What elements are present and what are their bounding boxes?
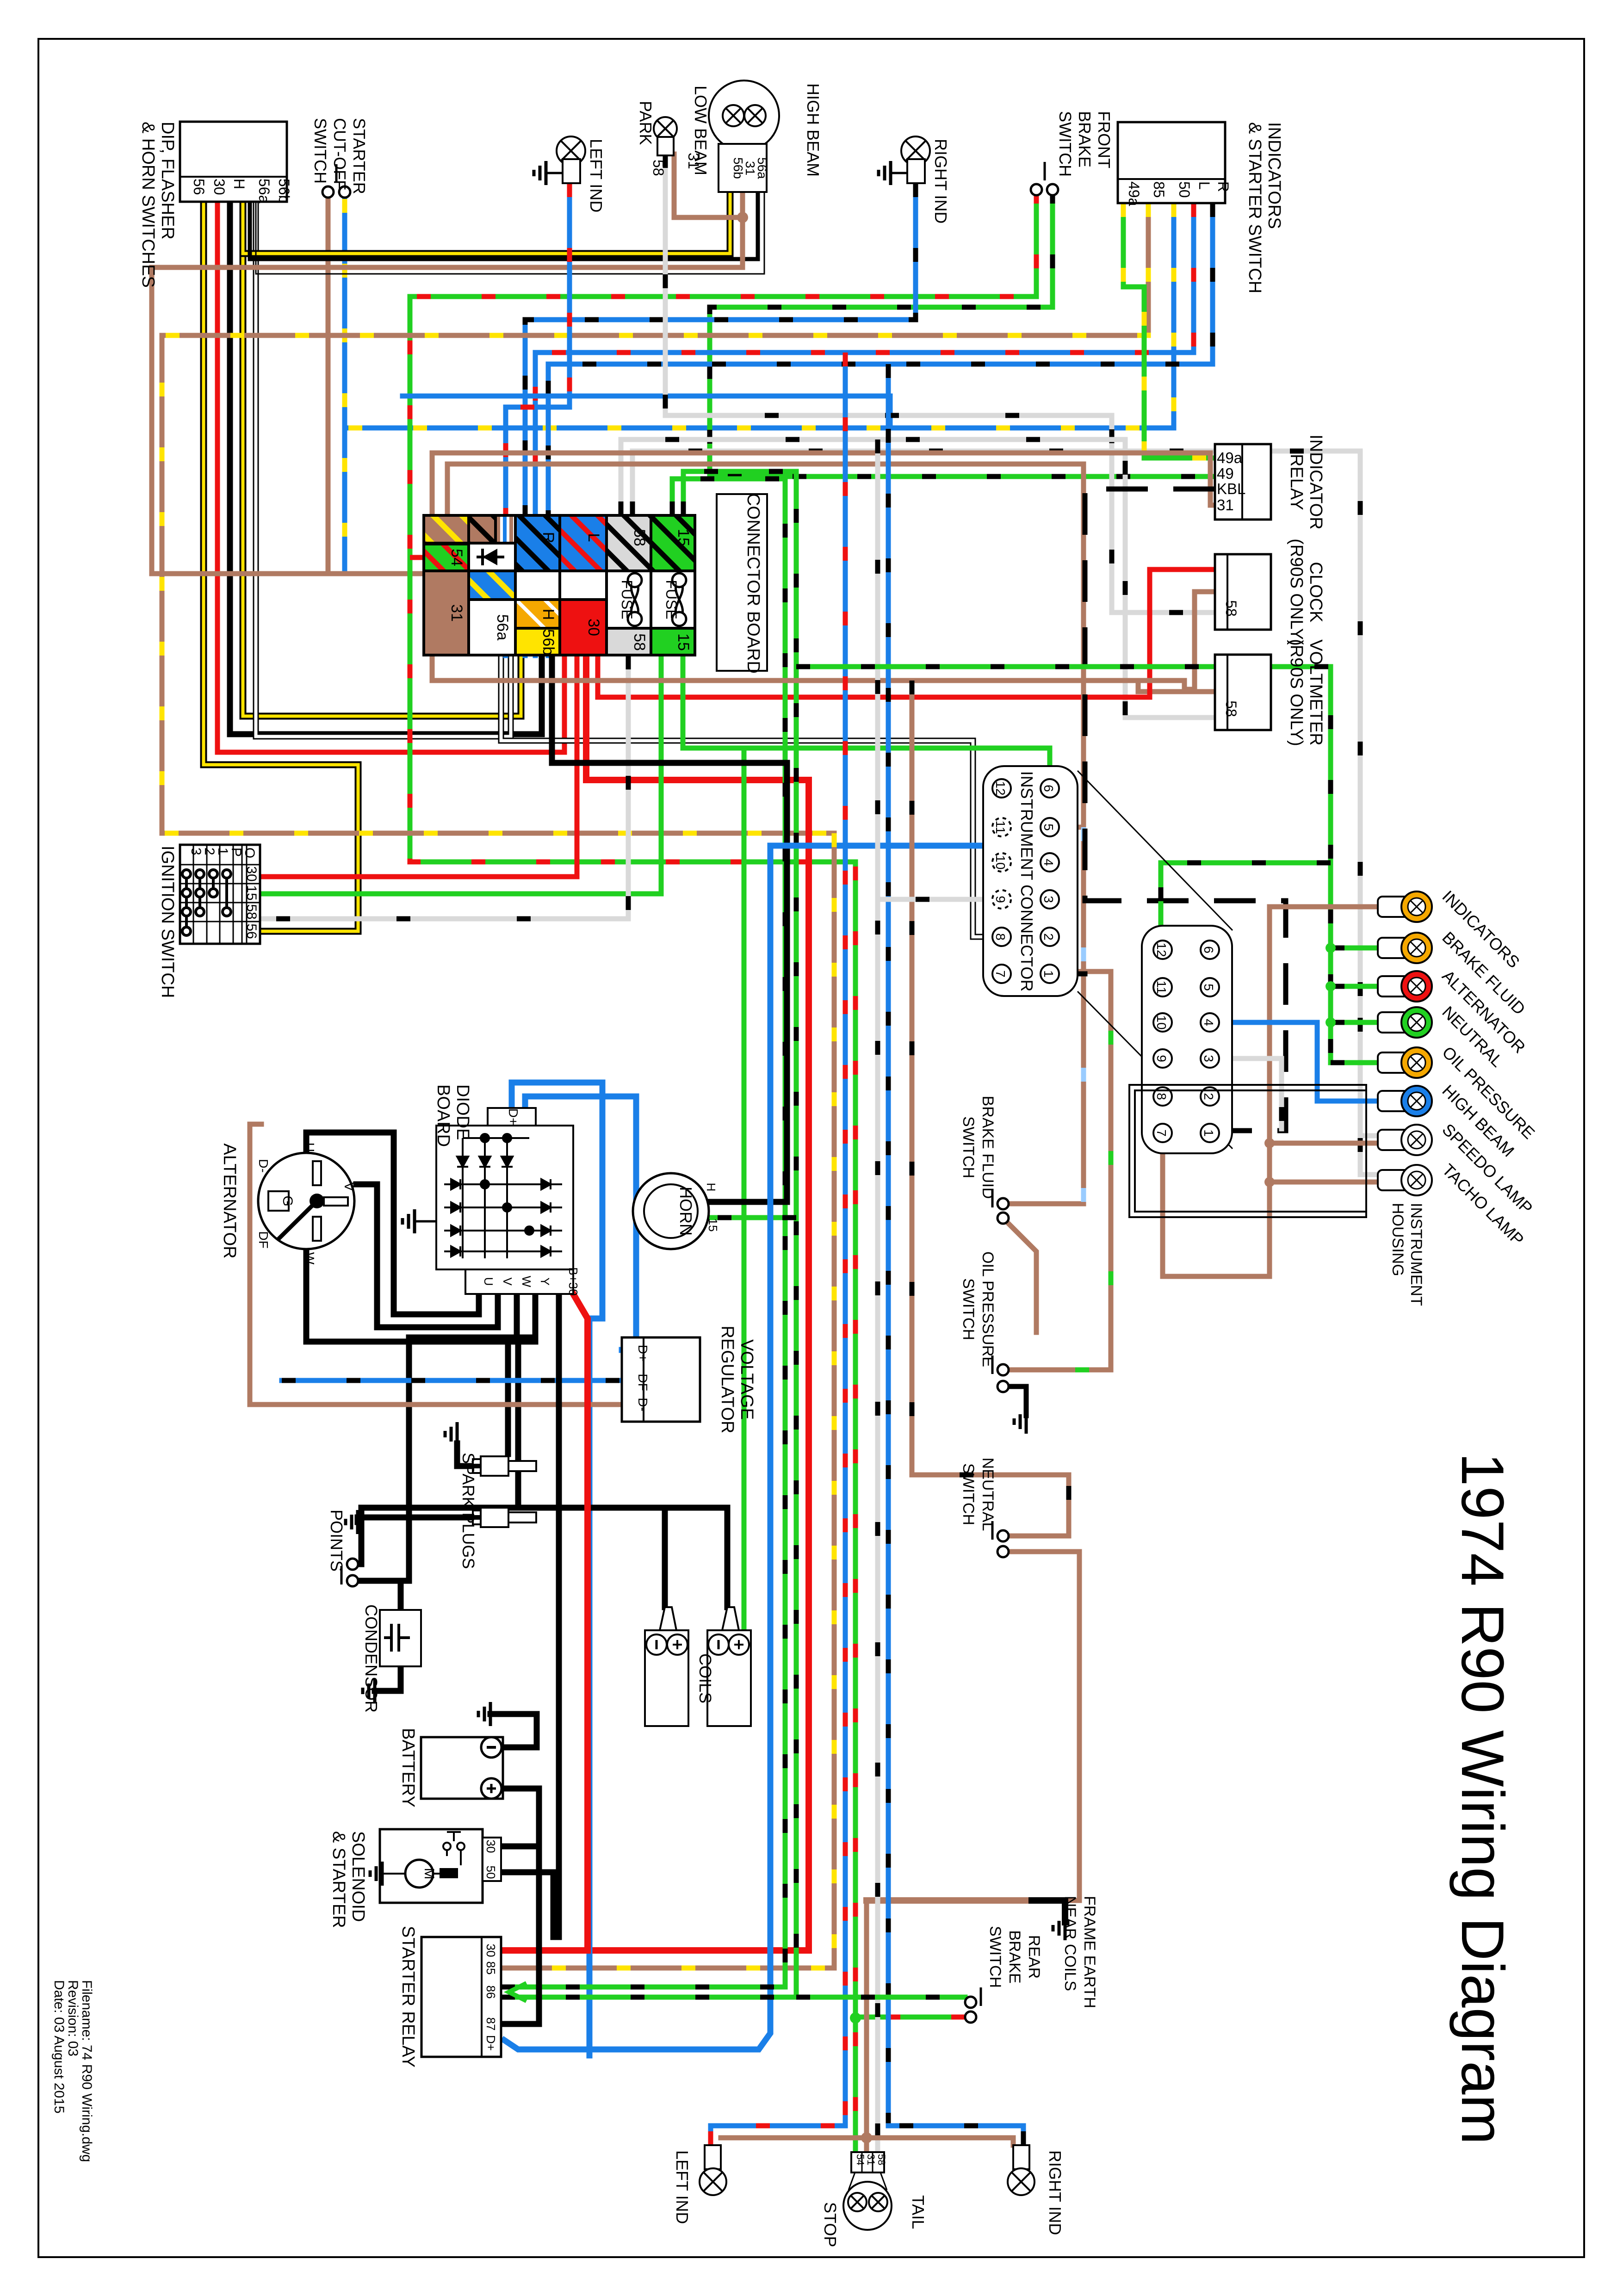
svg-text:D+: D+ [636, 1345, 650, 1362]
wire blue/red L bus [535, 203, 1194, 656]
wire 49a green/yellow [1123, 203, 1215, 458]
svg-text:V: V [501, 1277, 514, 1286]
svg-text:TAIL: TAIL [909, 2195, 928, 2229]
junction 31 tail [861, 2132, 872, 2143]
svg-text:& HORN SWITCHES: & HORN SWITCHES [138, 122, 158, 288]
svg-text:DF: DF [256, 1231, 271, 1248]
svg-text:D-: D- [256, 1159, 271, 1173]
junction dots housing greens [1326, 943, 1336, 1027]
ground solenoid [370, 1862, 382, 1886]
wire condensor gnd [375, 1666, 401, 1691]
wire H dip->board black [230, 202, 542, 734]
svg-text:15: 15 [706, 1219, 720, 1232]
diode board [436, 1126, 573, 1269]
svg-text:87: 87 [484, 2018, 498, 2031]
svg-text:U: U [482, 1277, 496, 1286]
svg-text:3: 3 [188, 848, 204, 855]
wire coil 1 feed [662, 1508, 668, 1607]
coils [645, 1630, 688, 1726]
junction 31 headlamp/park [737, 212, 748, 223]
lamp park [654, 117, 677, 140]
svg-text:54: 54 [855, 2154, 866, 2165]
svg-text:HORN: HORN [676, 1187, 695, 1236]
svg-text:8: 8 [1154, 1093, 1169, 1100]
wire alternator D- brown [250, 1221, 622, 1405]
svg-text:SWITCH: SWITCH [311, 118, 330, 184]
svg-text:50: 50 [484, 1866, 498, 1879]
svg-text:RIGHT IND: RIGHT IND [931, 139, 950, 223]
svg-text:VOLTAGE: VOLTAGE [737, 1339, 756, 1420]
leader lines [1078, 771, 1233, 930]
svg-text:1974 R90 Wiring Diagram: 1974 R90 Wiring Diagram [1449, 1453, 1517, 2145]
wire grey 58 board->voltmeter [621, 439, 1215, 718]
svg-text:DIODE: DIODE [453, 1084, 472, 1140]
points [347, 1559, 358, 1570]
svg-text:U: U [303, 1143, 317, 1152]
wire 56b dip->board white [256, 202, 511, 736]
svg-text:FUSE: FUSE [619, 580, 635, 619]
wire starter cut-off blue/yellow [345, 199, 469, 574]
connector board blocks [424, 515, 695, 655]
svg-text:O: O [242, 848, 257, 858]
wire 31 headlamp->left brown [152, 192, 743, 574]
wire KBL dashed black [1085, 489, 1286, 1131]
dip flasher & horn switches box [180, 122, 287, 202]
instrument housing connector [1142, 926, 1232, 1153]
wire indicators lamp brown2 [1270, 1141, 1380, 1146]
wire alternator D- up [250, 1124, 261, 1405]
svg-text:4: 4 [1202, 1019, 1216, 1026]
lamp high beam [744, 105, 766, 126]
svg-text:5: 5 [1041, 823, 1056, 831]
brake fluid switch [997, 1198, 1009, 1209]
wire housing pin4 blue high beam [1210, 1022, 1380, 1101]
ground right ind [879, 161, 891, 185]
svg-text:3: 3 [1041, 896, 1056, 903]
lamp stop bulb [848, 2193, 867, 2211]
wire points->coils black [361, 1508, 727, 1564]
wire blue/black R bus [548, 203, 1213, 656]
wire 56a dip->board yellow [243, 202, 521, 716]
svg-text:SOLENOID: SOLENOID [348, 1831, 368, 1922]
svg-text:12: 12 [1154, 942, 1169, 957]
indicators & starter switch box [1118, 122, 1225, 203]
svg-text:& STARTER SWITCH: & STARTER SWITCH [1245, 122, 1264, 293]
wire red fuse->clock [598, 569, 1215, 697]
svg-text:9: 9 [1154, 1055, 1169, 1062]
svg-text:LOW BEAM: LOW BEAM [691, 86, 710, 175]
svg-text:Y: Y [538, 1277, 552, 1285]
svg-text:58: 58 [631, 529, 648, 546]
lamp tail bulb [869, 2193, 887, 2211]
svg-text:11: 11 [1154, 980, 1169, 994]
svg-text:54: 54 [448, 549, 465, 566]
lamp SPEEDO LAMP [1378, 1130, 1410, 1150]
lamp left ind bottom [700, 2168, 726, 2195]
svg-text:15: 15 [675, 633, 692, 651]
svg-text:56b: 56b [539, 629, 557, 656]
wire grey trunk ->tail 58 [875, 439, 880, 2157]
wire 56a headlamp black [250, 192, 758, 259]
lamp NEUTRAL [1378, 1012, 1410, 1033]
wire 50 blue/yellow bus [345, 203, 1174, 428]
connector board label box [717, 494, 767, 671]
wire starter cut-off brown [328, 199, 424, 574]
svg-text:R: R [1215, 181, 1232, 192]
svg-text:58: 58 [1223, 600, 1239, 617]
wire green 15 ->instrument pin6 & coil [683, 656, 1050, 788]
svg-text:STOP: STOP [821, 2202, 840, 2247]
instrument connector [983, 766, 1078, 996]
wire diode Y -> points [353, 1294, 535, 1581]
svg-text:H: H [539, 609, 557, 620]
svg-text:SWITCH: SWITCH [960, 1278, 977, 1340]
wire spark plug 2 wire [358, 1517, 481, 1522]
rear brake switch [965, 1997, 976, 2008]
wire brown pin2->oil pressure [1009, 972, 1111, 1370]
wire oil lamp green [1331, 1060, 1380, 1065]
wire battery minus black [490, 1714, 537, 1747]
wire housing pin7 brown [1163, 907, 1380, 1276]
wire solenoid 50 black [491, 1872, 553, 1937]
svg-text:L: L [585, 533, 602, 542]
svg-text:30: 30 [244, 866, 259, 881]
wire 30 dip->fuse red [217, 202, 564, 752]
wire relay 86 green a [501, 1985, 785, 1990]
svg-text:W: W [303, 1252, 317, 1265]
svg-text:DIP, FLASHER: DIP, FLASHER [158, 122, 177, 240]
wire blue pin4->voltage reg D+ trunk [504, 846, 1045, 2049]
svg-text:RELAY: RELAY [1287, 454, 1306, 510]
ground spark2 [346, 1510, 358, 1534]
right ind bottom [1013, 2145, 1029, 2169]
svg-text:BRAKE: BRAKE [1006, 1930, 1023, 1983]
wire grey 58 park bus [665, 154, 1215, 613]
svg-text:D+: D+ [484, 2035, 498, 2051]
wire battery plus->solenoid [493, 1789, 539, 1846]
lamp HIGH BEAM [1378, 1091, 1410, 1111]
wire black pin1->KBL [1050, 972, 1085, 977]
svg-text:INSTRUMENT: INSTRUMENT [1407, 1203, 1425, 1306]
ignition contacts [182, 870, 231, 935]
svg-text:7: 7 [1154, 1129, 1169, 1137]
svg-text:ALTERNATOR: ALTERNATOR [220, 1143, 239, 1258]
svg-text:BRAKE: BRAKE [1075, 111, 1094, 167]
wire green/black front brake->relay49 [710, 190, 1215, 477]
spark plug 1 [473, 1456, 536, 1476]
svg-text:RIGHT IND: RIGHT IND [1046, 2150, 1065, 2235]
svg-text:CONDENSOR: CONDENSOR [362, 1604, 381, 1713]
svg-text:30: 30 [484, 1944, 498, 1957]
wire horn 15 tap [709, 1215, 796, 1220]
wire B+30 black down [556, 1294, 562, 1937]
lamp right ind top [901, 136, 930, 165]
wire green/black trunk B rear brake [683, 471, 965, 1997]
ground oil pressure [1014, 1410, 1026, 1434]
svg-text:56a: 56a [256, 179, 273, 204]
horn [633, 1173, 709, 1249]
alternator [258, 1153, 354, 1249]
wire spark plug 1 up [505, 1337, 511, 1454]
board stripes column [496, 515, 515, 543]
wire brown pin5->brake fluid [1009, 827, 1084, 1204]
ground condensor [363, 1679, 375, 1703]
wire alternator DF blue/black [282, 1378, 622, 1383]
wire grey 58 board->ignition [260, 656, 628, 919]
ground spark1 [445, 1422, 457, 1446]
svg-text:FUSE: FUSE [663, 580, 680, 619]
wire coil 2 feed [725, 1508, 731, 1607]
relay 86 arrowhead [509, 1983, 527, 2001]
board block outlines [424, 515, 695, 655]
svg-text:SWITCH: SWITCH [1056, 111, 1075, 177]
wire grey 58 board->speedo [632, 451, 1380, 1136]
svg-text:INDICATOR: INDICATOR [1306, 434, 1326, 530]
svg-text:V: V [342, 1182, 356, 1191]
svg-text:(R90S ONLY): (R90S ONLY) [1287, 639, 1306, 746]
wire blue/black right ind bus [525, 183, 916, 656]
wire blue D+ diode a [512, 1083, 602, 2055]
svg-text:49: 49 [1217, 465, 1234, 482]
wire housing pin3 grey [1210, 1058, 1282, 1129]
svg-text:30: 30 [585, 619, 602, 636]
voltage regulator [622, 1337, 700, 1422]
svg-text:D-: D- [636, 1398, 650, 1411]
wire brown bottom bus [721, 2138, 1013, 2145]
svg-text:31: 31 [865, 2154, 877, 2165]
junction 54 rear brake [850, 2012, 861, 2024]
svg-text:58: 58 [650, 160, 667, 176]
ground frame earth [1053, 1916, 1065, 1940]
condensor [380, 1610, 421, 1666]
svg-text:1: 1 [215, 848, 230, 855]
svg-text:Revision: 03: Revision: 03 [65, 1980, 81, 2056]
svg-text:30: 30 [484, 1840, 498, 1853]
starter relay [421, 1937, 501, 2057]
wire tacho brown [1270, 1180, 1380, 1185]
high/low beam headlamp [709, 80, 779, 151]
svg-text:Date: 03 August 2015: Date: 03 August 2015 [51, 1980, 67, 2114]
clock box [1215, 554, 1271, 630]
wire spark plug 2 up [518, 1342, 535, 1505]
wire alternator V black [356, 1184, 498, 1327]
wire brown 31 board->clock [1184, 592, 1215, 689]
svg-text:B+30: B+30 [566, 1267, 580, 1295]
ground diode board [403, 1209, 415, 1233]
wire 54 tap [410, 555, 424, 560]
wire brown bus 1003->pin5 [447, 464, 1084, 827]
svg-text:KBL: KBL [1217, 480, 1245, 497]
svg-text:LEFT IND: LEFT IND [587, 139, 606, 212]
lamp OIL PRESSURE [1378, 1052, 1410, 1073]
wire alternator lamp green [1331, 984, 1380, 989]
lamp left ind top [557, 136, 585, 165]
svg-text:STARTER RELAY: STARTER RELAY [398, 1926, 418, 2067]
svg-text:PARK: PARK [636, 101, 655, 145]
wire alternator W black [306, 1249, 517, 1342]
fuse symbols [628, 573, 642, 626]
wire housing pin12 green [1161, 863, 1331, 950]
indicator relay [1215, 444, 1271, 520]
wire frame earth black [1032, 1900, 1065, 1922]
svg-text:COILS: COILS [696, 1653, 715, 1703]
svg-text:49a: 49a [1217, 449, 1243, 466]
svg-text:R: R [539, 532, 557, 544]
wire brown 31 board->relay31 [432, 453, 1215, 515]
wire relay 87 black [501, 1789, 539, 2024]
svg-text:BATTERY: BATTERY [398, 1728, 418, 1807]
svg-text:2: 2 [1041, 933, 1056, 941]
svg-text:58: 58 [876, 2154, 887, 2165]
wire park 31 brown [674, 154, 743, 217]
ground battery [478, 1702, 490, 1726]
svg-text:4: 4 [1041, 859, 1056, 866]
wire brown neutral trunk [912, 681, 1069, 1536]
svg-text:SWITCH: SWITCH [960, 1116, 977, 1178]
diode matrix [444, 1134, 562, 1258]
wire B+30 red down [573, 1294, 588, 1950]
lamp right ind bottom [1008, 2168, 1035, 2195]
svg-text:D+: D+ [506, 1108, 520, 1126]
svg-text:2: 2 [1202, 1093, 1216, 1100]
wire rear brake lower green/red [855, 2015, 965, 2020]
wire blue 856 bus [403, 396, 890, 428]
svg-text:85: 85 [484, 1962, 498, 1975]
solenoid & starter [380, 1829, 483, 1903]
svg-text:49a: 49a [1126, 181, 1142, 206]
wire red fuse->starter relay 30 [501, 656, 809, 1950]
wire spark plug 1 wire [457, 1443, 481, 1466]
starter cut-off switch [322, 186, 334, 198]
wire relay 86 green b [501, 1995, 796, 2000]
svg-text:FRAME EARTH: FRAME EARTH [1081, 1896, 1098, 2008]
svg-text:P: P [229, 848, 244, 857]
svg-text:W: W [520, 1276, 533, 1287]
svg-text:DF: DF [636, 1374, 650, 1391]
svg-text:REGULATOR: REGULATOR [718, 1326, 737, 1434]
svg-text:STARTER: STARTER [350, 118, 369, 194]
svg-text:INDICATORS: INDICATORS [1264, 122, 1284, 229]
svg-text:L: L [1196, 181, 1213, 190]
wire oil pressure gnd wire [1003, 1386, 1026, 1416]
svg-text:15: 15 [675, 529, 692, 546]
wire white board->instrument pin8 [501, 656, 990, 937]
lamp BRAKE FLUID [1378, 938, 1410, 958]
lamp low beam [723, 105, 744, 126]
wire blue/black trunk [886, 364, 891, 2126]
battery [421, 1737, 503, 1799]
wire brake fluid lamp green [1331, 946, 1380, 951]
svg-text:NEAR COILS: NEAR COILS [1061, 1896, 1079, 1991]
wire blue/red trunk [843, 353, 848, 2126]
lamp INDICATORS [1378, 897, 1410, 917]
svg-text:56a: 56a [494, 614, 511, 641]
svg-text:INSTRUMENT CONNECTOR: INSTRUMENT CONNECTOR [1017, 771, 1036, 992]
wire green/black trunk A relay86 [501, 479, 785, 1987]
svg-text:8: 8 [993, 933, 1008, 941]
svg-text:H: H [231, 179, 248, 189]
svg-text:1: 1 [1202, 1129, 1216, 1137]
svg-text:HIGH BEAM: HIGH BEAM [804, 83, 823, 177]
wire 56b headlamp yellow/black [243, 192, 730, 254]
wire instrument pin3 grey [878, 897, 1050, 902]
svg-text:58: 58 [244, 904, 259, 919]
wire brown neutral lower->frame earth->tail [867, 1552, 1079, 2157]
svg-text:REAR: REAR [1025, 1935, 1043, 1979]
wire headlamp white 2 [256, 192, 764, 274]
wire brown 31 bus [432, 656, 1184, 681]
wire blue D+ diode b [525, 1096, 636, 1350]
wire blue/red ->left ind [711, 2126, 845, 2145]
svg-text:56: 56 [191, 179, 207, 195]
wire H board->horn black [552, 656, 787, 1202]
svg-text:50: 50 [1176, 181, 1193, 198]
wire brown/yellow oil bus trunk [832, 833, 837, 1968]
svg-text:5: 5 [1202, 984, 1216, 991]
svg-text:IGNITION SWITCH: IGNITION SWITCH [158, 846, 177, 998]
svg-text:30: 30 [211, 179, 228, 195]
svg-text:SWITCH: SWITCH [986, 1926, 1004, 1988]
svg-text:31: 31 [1217, 496, 1234, 514]
svg-text:85: 85 [1151, 181, 1167, 198]
wire 56 dip->ignition yellow/black [204, 202, 358, 931]
wire blue/black ->right ind [888, 2126, 1023, 2145]
wire green/red front brake->54 bus [410, 190, 1036, 2160]
svg-text:POINTS: POINTS [327, 1510, 346, 1572]
wire brown 31 board->voltmeter [1138, 681, 1215, 692]
svg-text:CONNECTOR BOARD: CONNECTOR BOARD [743, 493, 763, 674]
svg-text:31: 31 [448, 604, 465, 622]
voltmeter box [1215, 655, 1271, 730]
wire rear brake upper green [796, 1995, 965, 2000]
svg-text:56b: 56b [276, 179, 292, 203]
svg-text:2: 2 [202, 848, 217, 855]
wire neutral lamp green [1331, 1020, 1380, 1025]
board diode symbol [483, 549, 497, 565]
svg-text:15: 15 [244, 885, 259, 900]
wire alternator U black [306, 1133, 479, 1314]
svg-text:G: G [280, 1195, 295, 1206]
wire red fuse->ignition 30 [260, 656, 577, 877]
svg-text:SWITCH: SWITCH [960, 1463, 977, 1525]
wire condensor top [398, 1581, 404, 1610]
wire green 15 ->ignition [260, 656, 661, 894]
svg-text:Filename: 74 R90 Wiring.dwg: Filename: 74 R90 Wiring.dwg [79, 1980, 94, 2162]
lamp TACHO LAMP [1378, 1170, 1410, 1190]
svg-text:H: H [704, 1183, 718, 1192]
front brake switch [1031, 184, 1042, 195]
ground left ind [534, 161, 546, 185]
svg-text:LEFT IND: LEFT IND [673, 2150, 692, 2224]
wire frame earth brown bus [867, 1897, 1032, 1904]
svg-text:& STARTER: & STARTER [329, 1831, 348, 1928]
svg-text:6: 6 [1041, 785, 1056, 792]
svg-text:9: 9 [993, 896, 1008, 903]
svg-text:11: 11 [993, 820, 1008, 834]
instrument housing outline [1129, 1085, 1366, 1217]
svg-text:10: 10 [1154, 1015, 1169, 1029]
lamp ALTERNATOR [1378, 976, 1410, 996]
wire green 15 coil branch [742, 748, 747, 1630]
wire blue/red left ind bus [506, 183, 570, 656]
svg-text:CUT-OFF: CUT-OFF [330, 118, 349, 190]
svg-text:HOUSING: HOUSING [1389, 1203, 1406, 1276]
wire green bus 1441->housing lamps [796, 667, 1331, 1063]
svg-text:SPARK PLUGS: SPARK PLUGS [459, 1453, 478, 1569]
left ind bottom [705, 2145, 721, 2169]
svg-text:6: 6 [1202, 946, 1216, 953]
svg-text:BOARD: BOARD [434, 1084, 453, 1147]
